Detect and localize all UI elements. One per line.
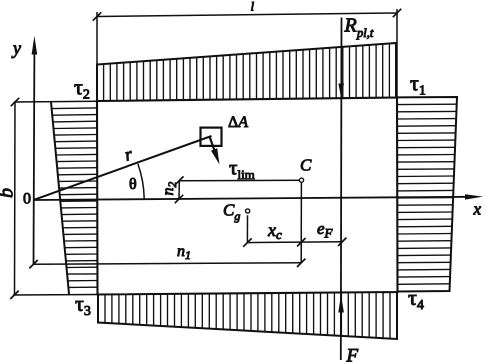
y axis — [33, 50, 36, 264]
svg-text:Cg: Cg — [223, 201, 240, 224]
dimension tick at F line — [338, 238, 346, 246]
dimension x_c / e_F line — [247, 241, 342, 244]
dimension n1 tick right — [297, 259, 305, 267]
dimension n2 line — [178, 181, 180, 200]
dimension b extension line top — [14, 100, 97, 103]
dimension b line — [14, 102, 17, 295]
svg-text:θ: θ — [129, 176, 137, 193]
shear stress arrow on dA — [209, 136, 214, 150]
svg-text:C: C — [300, 156, 312, 175]
svg-text:τ2: τ2 — [74, 75, 90, 103]
svg-text:F: F — [346, 346, 359, 364]
svg-text:y: y — [11, 38, 21, 58]
tau_lim reference line — [179, 179, 301, 182]
dimension l line — [97, 13, 397, 17]
force F arrowhead (up) — [338, 295, 344, 313]
point Cg circle — [246, 209, 250, 213]
svg-text:ΔA: ΔA — [228, 114, 248, 131]
svg-text:0: 0 — [23, 191, 31, 208]
force line R / F (vertical) — [340, 18, 343, 361]
bottom stress distribution hatch (vertical lines) — [105, 292, 390, 338]
dimension n2 tick top — [175, 176, 183, 184]
svg-text:x: x — [473, 200, 482, 219]
dimension n2 tick bottom — [175, 195, 183, 203]
dimension tick at C — [297, 238, 305, 246]
svg-text:xc: xc — [267, 220, 282, 242]
svg-text:l: l — [251, 0, 255, 14]
svg-text:τ4: τ4 — [408, 285, 424, 313]
svg-text:n1: n1 — [177, 243, 191, 262]
bottom stress distribution outline — [98, 292, 397, 339]
plate outline — [97, 98, 398, 295]
dimension b tick bottom — [10, 291, 18, 299]
dimension l extension line left — [96, 12, 98, 65]
dimension l tick right — [393, 9, 401, 17]
dimension b extension line bottom — [13, 294, 98, 297]
svg-text:pl,t: pl,t — [356, 26, 374, 40]
right stress distribution hatch (horizontal lines) — [397, 104, 457, 284]
left stress distribution outline (slanted left edge) — [51, 102, 69, 294]
x axis — [34, 197, 471, 200]
force R arrowhead (down) — [338, 84, 344, 98]
dimension n1 line — [34, 263, 302, 264]
svg-text:τ1: τ1 — [410, 71, 426, 99]
svg-text:b: b — [0, 188, 18, 198]
extension line below Cg — [246, 215, 248, 242]
dimension b tick top — [11, 98, 19, 106]
elemental area dA square — [201, 128, 222, 146]
svg-text:R: R — [344, 15, 357, 37]
y axis arrowhead — [32, 36, 38, 55]
left stress distribution hatch (horizontal lines) — [52, 108, 97, 288]
top stress distribution outline — [97, 43, 396, 101]
dimension n1 tick left — [29, 260, 37, 268]
dimension l tick left — [93, 12, 101, 20]
x axis arrowhead — [465, 194, 483, 199]
right stress distribution outline — [397, 97, 457, 292]
top stress distribution hatch (vertical lines) — [104, 44, 390, 101]
svg-text:eF: eF — [317, 219, 334, 241]
dimension l extension line right — [396, 9, 398, 97]
svg-text:n2: n2 — [160, 182, 179, 196]
svg-text:τlim: τlim — [229, 156, 255, 183]
dimension tick at Cg — [243, 238, 251, 246]
point C circle — [299, 178, 303, 182]
angle arc theta — [138, 164, 144, 199]
radius line r — [34, 136, 212, 200]
extension line below C — [300, 183, 302, 263]
svg-text:r: r — [122, 143, 135, 164]
